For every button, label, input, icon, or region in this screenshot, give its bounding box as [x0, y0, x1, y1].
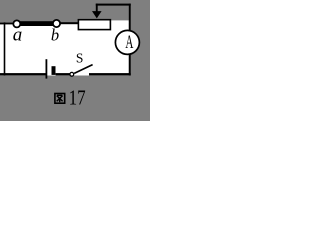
wire: top-left horizontal to terminal a	[0, 22, 14, 24]
svg-text:b: b	[51, 25, 59, 44]
white circuit interior	[0, 22, 129, 76]
wire: bottom middle segment battery to switch	[56, 73, 71, 75]
white strip under gray right of rheostat box	[110, 20, 129, 22]
gray page background	[0, 0, 150, 121]
svg-text:a: a	[13, 24, 23, 45]
wire: right vertical	[129, 4, 131, 76]
wire: b to rheostat box	[61, 22, 79, 24]
wire: bottom left segment	[0, 73, 46, 75]
rheostat R resistor box	[78, 20, 110, 30]
svg-text:S: S	[76, 51, 84, 66]
switch S lever (open)	[74, 65, 92, 74]
svg-text:17: 17	[69, 85, 86, 109]
battery short thick plate (negative)	[52, 66, 56, 75]
ammeter A meter body	[115, 30, 139, 54]
terminal a	[13, 20, 20, 27]
resistance wire bar a-b (thick)	[17, 21, 55, 26]
svg-text:A: A	[125, 33, 133, 53]
slider arrow head	[92, 11, 102, 18]
caption glyph 图 inner strokes	[57, 95, 63, 102]
terminal b	[53, 20, 60, 27]
wire: bottom right segment	[89, 73, 131, 75]
switch pivot contact	[70, 72, 74, 76]
battery long plate (positive)	[46, 59, 48, 78]
slider arrow stem wire	[96, 4, 98, 13]
wire: top-right horizontal	[96, 4, 131, 6]
caption glyph 图 box outline	[55, 94, 65, 104]
wire: left vertical	[4, 22, 6, 75]
